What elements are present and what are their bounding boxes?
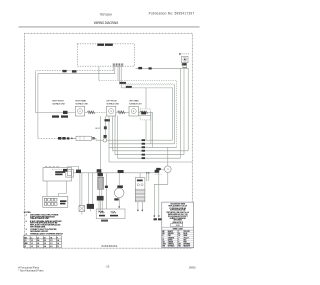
side vertical with tick bbox=[105, 173, 107, 209]
bus tag blob bbox=[149, 67, 152, 69]
oven feed component blob 3 bbox=[67, 137, 70, 139]
door lock top lead bbox=[167, 147, 169, 166]
door lock label blob bbox=[156, 168, 161, 170]
svg-text:BROWN: BROWN bbox=[168, 233, 175, 235]
svg-text:THIS APPLIANCE UNIT.: THIS APPLIANCE UNIT. bbox=[30, 217, 50, 220]
wire label blob busL2 bbox=[72, 70, 77, 72]
svg-text:RIGHT REAR: RIGHT REAR bbox=[75, 100, 86, 103]
long vertical to lower assembly bbox=[100, 116, 102, 173]
thermostat to block elbow wire bbox=[59, 181, 67, 196]
svg-text:5-6: 5-6 bbox=[44, 243, 46, 245]
bake element dark body bbox=[97, 196, 104, 201]
svg-text:TEF326A: TEF326A bbox=[100, 13, 113, 17]
door switch drop wire bbox=[145, 88, 147, 140]
thermostat attached inner box bbox=[67, 171, 71, 175]
oven light feed wire bbox=[136, 67, 189, 69]
oven feed component blob 2 bbox=[62, 137, 65, 140]
vertical wires right of switch row bbox=[151, 112, 153, 147]
motor lower blob bbox=[114, 198, 118, 200]
surface switch S1 contact circle bbox=[78, 109, 83, 114]
svg-text:3.: 3. bbox=[26, 229, 28, 231]
clock label blob 1 bbox=[97, 44, 104, 46]
wire bundle label blobs bbox=[142, 139, 145, 159]
zigzag wire wrap bbox=[174, 84, 176, 143]
svg-text:2-3: 2-3 bbox=[50, 240, 52, 242]
terminal block pin grid bbox=[44, 198, 57, 205]
svg-text:YELLOW: YELLOW bbox=[183, 231, 190, 233]
surface switch S1 box bbox=[75, 106, 84, 116]
link blob bbox=[63, 169, 67, 172]
wire E3 to right verticals bbox=[147, 111, 152, 113]
fuse drop wire bbox=[79, 173, 81, 206]
clock drop wires bbox=[99, 66, 121, 88]
oven light label blob bbox=[182, 63, 187, 65]
svg-text:WHT/BLK: WHT/BLK bbox=[168, 246, 175, 248]
svg-text:316426201: 316426201 bbox=[101, 244, 118, 248]
svg-text:WHITE: WHITE bbox=[168, 239, 173, 241]
header rule bbox=[19, 26, 200, 28]
svg-text:1-2: 1-2 bbox=[31, 246, 33, 248]
oven light junction tick bbox=[183, 67, 187, 69]
sensor pair wires bbox=[89, 173, 93, 204]
svg-text:WIRING DIAGRAM: WIRING DIAGRAM bbox=[94, 21, 119, 25]
legend column divider bbox=[177, 230, 179, 248]
chain label blob bbox=[104, 135, 107, 138]
broil element striped body bbox=[98, 177, 104, 189]
thermostat label blob line1 bbox=[55, 171, 65, 173]
lower wire label blob 1 bbox=[76, 170, 81, 173]
surface switch S3 contact circle bbox=[131, 109, 136, 114]
relay label blob bbox=[137, 180, 143, 182]
wire E2 to S4 bbox=[124, 111, 129, 113]
legend part pill bbox=[171, 224, 183, 227]
detail caption blob bbox=[101, 220, 108, 222]
svg-text:VIOLET: VIOLET bbox=[183, 237, 188, 239]
svg-text:H1: H1 bbox=[44, 237, 46, 239]
svg-text:1.: 1. bbox=[26, 215, 28, 217]
wire label blob right bus1 bbox=[120, 82, 127, 84]
sensor blob component bbox=[87, 204, 94, 209]
element lead arrowheads bbox=[98, 211, 100, 213]
svg-text:4-5: 4-5 bbox=[50, 245, 52, 248]
relay hatch bbox=[135, 188, 145, 190]
surface switch S2 contact circle bbox=[109, 109, 114, 114]
surface switch S2 box bbox=[106, 106, 115, 116]
chain top label blob bbox=[105, 119, 111, 121]
oven feed component blob 1 bbox=[58, 137, 61, 140]
bus to right lower bbox=[121, 88, 172, 140]
arrow blob after box bbox=[92, 137, 94, 139]
svg-text:GRN/YEL: GRN/YEL bbox=[168, 244, 174, 246]
switch chart table grid bbox=[24, 236, 62, 248]
wire label blob right bus2 bbox=[126, 86, 132, 88]
svg-text:BLUE: BLUE bbox=[183, 233, 187, 235]
dashed wire E1 to S3 bbox=[94, 111, 106, 113]
lower wire label blob 4 bbox=[155, 170, 160, 173]
svg-text:L1: L1 bbox=[31, 237, 33, 239]
bus L1 left drop bbox=[35, 71, 75, 113]
element top component blob bbox=[98, 173, 103, 176]
thermostat label blob line2 bbox=[55, 174, 62, 176]
svg-text:* Non-Illustrated Parts: * Non-Illustrated Parts bbox=[18, 268, 44, 272]
bus to right upper dashed bbox=[99, 81, 177, 148]
drop wire arrowheads bbox=[153, 216, 155, 218]
oven feed arrow bbox=[71, 137, 73, 139]
detail zigzag 2 bbox=[111, 211, 117, 213]
relay top lead bbox=[139, 173, 141, 178]
svg-text:WITH SAME WIRE.: WITH SAME WIRE. bbox=[30, 225, 46, 228]
oven thermostat box bbox=[43, 168, 72, 182]
svg-text:BL: BL bbox=[178, 233, 180, 235]
oven fuse box with X bbox=[79, 206, 85, 212]
switch chart cell text bbox=[24, 237, 59, 248]
svg-text:1-2: 1-2 bbox=[31, 240, 33, 242]
wire into door lock bbox=[162, 168, 165, 170]
clock and timer box bbox=[77, 44, 134, 66]
svg-text:SURFACE UNIT: SURFACE UNIT bbox=[129, 103, 143, 106]
relay bottom leads bbox=[138, 202, 142, 211]
svg-text:2-3: 2-3 bbox=[50, 243, 52, 245]
motor lead arrowhead bbox=[118, 206, 120, 208]
chain circle component bbox=[103, 138, 107, 142]
bus wire L2 with left drop bbox=[38, 74, 115, 139]
svg-text:RED/WHT: RED/WHT bbox=[183, 246, 190, 248]
detail zigzag 1 bbox=[99, 211, 105, 213]
second drop wire bbox=[158, 173, 160, 217]
oven light bulb circle bbox=[183, 57, 187, 61]
svg-text:WHT/RED: WHT/RED bbox=[183, 244, 191, 246]
cabinet outline dashed frame bbox=[25, 33, 193, 248]
wire bundle horizontal runs bbox=[107, 116, 193, 162]
fuse bottom lead bbox=[81, 211, 83, 214]
thermostat attached box bbox=[66, 170, 74, 178]
wire box to chain circle bbox=[92, 138, 103, 140]
surface switch S3 box bbox=[129, 106, 138, 116]
svg-text:2-3: 2-3 bbox=[37, 246, 39, 248]
legend title lines bbox=[167, 203, 189, 224]
wire S3 to E2 bbox=[116, 111, 118, 113]
svg-text:P-1: P-1 bbox=[57, 246, 59, 248]
svg-text:RIGHT FRONT: RIGHT FRONT bbox=[52, 101, 65, 103]
svg-text:3-4: 3-4 bbox=[37, 239, 39, 242]
detail labels bbox=[99, 215, 105, 217]
fuse drop wire 2 bbox=[81, 173, 83, 206]
element mid wires bbox=[99, 173, 102, 212]
svg-text:T: T bbox=[178, 239, 179, 241]
svg-text:3-4: 3-4 bbox=[37, 242, 39, 245]
svg-text:5-6: 5-6 bbox=[44, 240, 46, 242]
clock terminal dots bbox=[113, 64, 124, 65]
thermostat top contact bumps bbox=[45, 166, 59, 167]
bus tag blob 2 bbox=[138, 67, 142, 69]
svg-text:TERMINAL IDENT. OF INFINITE SW: TERMINAL IDENT. OF INFINITE SWITCH bbox=[30, 232, 63, 235]
bus wire L1 dashed bbox=[35, 70, 113, 72]
detail legend box bbox=[96, 209, 125, 219]
legend box bbox=[162, 202, 194, 248]
clock label blob 2 bbox=[105, 44, 113, 46]
svg-text:Publication No: 5995417397: Publication No: 5995417397 bbox=[149, 12, 195, 16]
door lock motor circle bbox=[165, 166, 172, 173]
door lock inner mark bbox=[167, 168, 169, 170]
legend divider 2 bbox=[162, 229, 194, 231]
surface element E1 bbox=[87, 111, 95, 114]
legend table rows bbox=[162, 230, 194, 248]
surface element E3 bbox=[140, 111, 148, 114]
svg-text:4.: 4. bbox=[26, 232, 28, 235]
wire between S1 and E1 bbox=[85, 111, 88, 113]
oven feed wire bbox=[58, 137, 76, 139]
notes text block bbox=[26, 215, 64, 236]
svg-text:LEFT FRONT: LEFT FRONT bbox=[106, 101, 118, 103]
dashed stub below label bbox=[155, 174, 162, 176]
svg-text:2.: 2. bbox=[26, 221, 28, 223]
svg-text:SURFACE UNIT: SURFACE UNIT bbox=[75, 103, 89, 106]
lower wire label blob 3 bbox=[118, 170, 124, 173]
thermostat to block wire left bbox=[46, 181, 48, 196]
wire S4 to E3 bbox=[138, 111, 140, 113]
door switch inner wire bbox=[138, 115, 150, 117]
svg-text:OV. LT.: OV. LT. bbox=[95, 128, 101, 130]
oven light callout dot bbox=[179, 53, 181, 55]
clock terminal ticks bbox=[113, 64, 123, 67]
svg-text:L2: L2 bbox=[37, 237, 39, 239]
wire tag blobs below row bbox=[52, 115, 59, 117]
main lower horizontal wire bbox=[73, 172, 159, 174]
oven feed wire dashed segment bbox=[38, 137, 58, 139]
oven light dark center bbox=[184, 59, 186, 61]
svg-text:-13-: -13- bbox=[105, 265, 110, 269]
motor leads bbox=[118, 173, 120, 207]
convection motor circle bbox=[114, 188, 124, 198]
wire label blob busN bbox=[62, 70, 66, 72]
door switch dashed box bbox=[140, 109, 150, 120]
junction dot bbox=[100, 172, 101, 173]
svg-text:09/05: 09/05 bbox=[189, 265, 196, 269]
bridge wire over box bbox=[68, 167, 79, 170]
lower wire label blob 2 bbox=[97, 169, 102, 172]
relay contact circles bbox=[137, 184, 139, 186]
svg-text:H2: H2 bbox=[50, 237, 52, 239]
svg-text:1-2: 1-2 bbox=[31, 243, 33, 245]
inline component box on oven feed bbox=[76, 136, 92, 140]
door lock bottom L wire bbox=[154, 173, 168, 217]
oven light leads bbox=[183, 63, 187, 69]
feed wire label blob bbox=[63, 111, 68, 114]
svg-text:LEFT REAR: LEFT REAR bbox=[129, 100, 139, 103]
svg-text:SURFACE UNIT: SURFACE UNIT bbox=[106, 103, 120, 106]
zigzag twisted wire bbox=[120, 83, 175, 85]
legend divider 1 bbox=[162, 226, 194, 228]
relay control box bbox=[135, 178, 145, 202]
svg-text:1-4: 1-4 bbox=[57, 239, 59, 242]
svg-text:1-4: 1-4 bbox=[57, 242, 59, 245]
chain switch component bbox=[104, 126, 107, 129]
oven light callout dashes bbox=[182, 53, 191, 55]
drop wire label blobs bbox=[154, 218, 157, 220]
motor top blob bbox=[117, 185, 123, 188]
vertical chain component wire bbox=[104, 116, 106, 138]
oven light box bbox=[182, 56, 188, 62]
surface element E2 bbox=[117, 111, 125, 114]
relay stub junction dots bbox=[146, 172, 147, 173]
terminal block box bbox=[43, 196, 68, 207]
thermostat top dashed link bbox=[52, 169, 63, 171]
door switch blob bbox=[141, 112, 146, 115]
svg-text:3-4: 3-4 bbox=[44, 245, 46, 248]
svg-text:SURFACE UNIT: SURFACE UNIT bbox=[52, 103, 66, 106]
sensor bottom tick bbox=[90, 209, 92, 212]
right side long verticals bbox=[180, 68, 188, 158]
terminal block label blobs bbox=[60, 200, 66, 202]
relay side stub wires bbox=[147, 173, 149, 181]
